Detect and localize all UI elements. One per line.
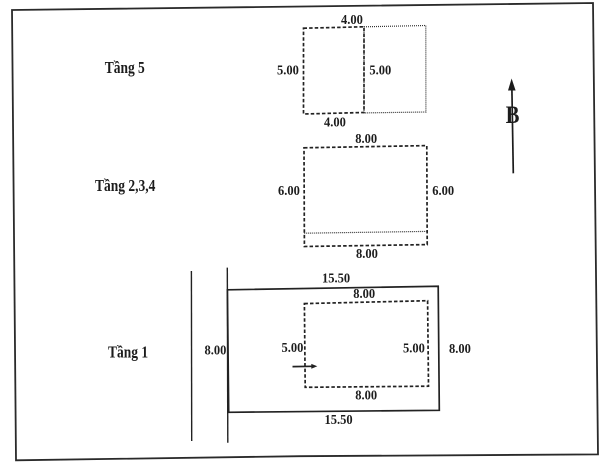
svg-text:6.00: 6.00 <box>278 183 300 199</box>
Tang 1 boundary vertical line right (lot edge) <box>226 268 229 443</box>
north arrow shaft <box>512 89 513 173</box>
north arrow head <box>508 79 516 91</box>
svg-text:8.00: 8.00 <box>356 246 378 262</box>
Tang 2,3,4 dashed rectangle <box>304 146 427 247</box>
svg-text:5.00: 5.00 <box>403 340 425 356</box>
svg-text:5.00: 5.00 <box>282 339 304 355</box>
svg-text:4.00: 4.00 <box>324 114 346 130</box>
Tang 1 boundary vertical line left <box>190 271 192 441</box>
svg-text:8.00: 8.00 <box>205 342 227 358</box>
svg-text:Tầng 1: Tầng 1 <box>108 343 148 362</box>
Tang 2,3,4 dotted interior line <box>304 231 427 233</box>
Tang 5 dashed room rectangle <box>304 27 365 114</box>
Tang 1 inner dashed building rectangle <box>304 301 428 388</box>
svg-text:B: B <box>506 100 520 129</box>
svg-text:4.00: 4.00 <box>341 12 363 28</box>
entrance arrow <box>293 365 313 367</box>
svg-text:Tầng 2,3,4: Tầng 2,3,4 <box>95 177 156 196</box>
svg-text:Tầng 5: Tầng 5 <box>105 59 145 78</box>
Tang 1 solid lot rectangle <box>227 286 439 412</box>
svg-text:5.00: 5.00 <box>369 62 391 78</box>
svg-text:8.00: 8.00 <box>355 130 377 146</box>
svg-text:6.00: 6.00 <box>432 183 454 199</box>
svg-text:8.00: 8.00 <box>353 285 375 301</box>
svg-text:8.00: 8.00 <box>449 340 471 356</box>
svg-text:15.50: 15.50 <box>325 411 353 427</box>
Tang 5 dotted lot rectangle <box>364 26 426 113</box>
svg-text:5.00: 5.00 <box>277 62 299 78</box>
svg-text:15.50: 15.50 <box>322 270 350 286</box>
svg-text:8.00: 8.00 <box>355 387 377 403</box>
